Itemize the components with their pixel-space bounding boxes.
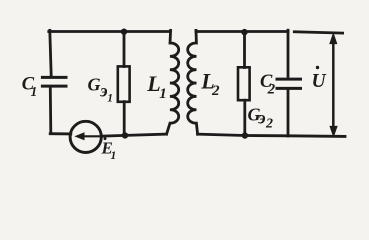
label C2 — [260, 72, 276, 98]
wire right vertical lower — [287, 90, 290, 136]
wire branch G2 lower — [243, 100, 246, 135]
capacitor C2 — [277, 79, 301, 88]
svg-text:2: 2 — [211, 83, 220, 99]
svg-text:2: 2 — [267, 82, 276, 98]
resistor G_e1 — [118, 66, 130, 101]
junction node top right — [241, 29, 247, 35]
svg-text:2: 2 — [265, 116, 273, 131]
wire right vertical upper — [287, 30, 290, 77]
label C1 — [22, 74, 37, 99]
inductor L1 — [167, 30, 179, 134]
label U — [312, 66, 327, 92]
arrow of source E1 — [76, 133, 101, 140]
label L2 — [200, 68, 220, 99]
voltage arrow U — [330, 34, 337, 137]
svg-text:U: U — [312, 71, 327, 92]
capacitor C1 — [42, 77, 66, 86]
svg-text:G: G — [88, 75, 101, 95]
wire bottom of right loop — [198, 134, 345, 136]
wire top extension to arrow — [294, 32, 342, 33]
junction node top left — [121, 29, 127, 35]
wire source to L1 bottom — [102, 134, 167, 136]
inductor L2 — [188, 30, 198, 134]
label E1 — [101, 137, 117, 162]
wire left vertical lower — [49, 89, 52, 133]
svg-text:1: 1 — [159, 86, 167, 102]
svg-text:1: 1 — [31, 84, 38, 99]
label L1 — [146, 71, 167, 102]
resistor G_e2 — [238, 67, 250, 100]
wire branch G1 upper — [123, 32, 126, 67]
wire branch G2 upper — [243, 32, 246, 68]
junction node bottom left — [122, 132, 128, 138]
wire bottom left to source — [50, 132, 71, 135]
wire branch G1 lower — [123, 102, 126, 136]
wire left vertical upper — [50, 30, 51, 76]
wire top of left loop — [49, 30, 170, 33]
source E1 — [70, 121, 101, 152]
junction node bottom right — [242, 132, 248, 138]
wire top of right loop — [196, 30, 288, 33]
svg-text:э: э — [257, 108, 265, 128]
svg-text:1: 1 — [107, 92, 113, 104]
label G_e1 — [88, 75, 114, 105]
svg-text:1: 1 — [111, 150, 117, 162]
label G_e2 — [248, 105, 274, 132]
